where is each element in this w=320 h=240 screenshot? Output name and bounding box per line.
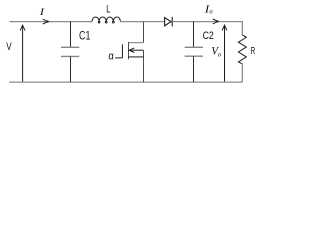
capacitor C1 [61,22,79,82]
wire top middle segment [120,21,164,23]
right branch upper wire [241,21,243,35]
source rail to bottom wire [143,50,145,82]
inductor L [92,17,120,23]
svg-text:V: V [6,41,12,53]
transistor (MOSFET) [115,22,143,82]
channel bar [128,42,130,59]
right branch lower wire [241,64,243,82]
current arrow Io on top wire [213,19,218,24]
capacitor C2 [185,22,203,82]
voltage arrow V (input) [20,25,25,81]
bottom wire [9,81,243,83]
resistor R [238,35,246,64]
current arrow I on top wire [43,19,48,24]
svg-text:C1: C1 [79,31,90,43]
svg-text:C2: C2 [203,30,214,42]
svg-text:o: o [209,9,213,16]
svg-text:α: α [108,51,114,63]
svg-text:o: o [218,49,222,58]
gate lead [115,57,122,59]
drain stub [128,42,143,44]
wire top left segment [10,21,93,23]
gate bar [121,44,123,58]
diode D [165,17,173,27]
svg-text:L: L [106,4,110,16]
drain rail from top wire [143,22,145,43]
svg-text:R: R [251,45,256,57]
voltage arrow Vo (output) [222,25,227,81]
source stub [128,56,143,58]
body stub with arrow [129,49,143,51]
wire top right segment [172,21,242,23]
